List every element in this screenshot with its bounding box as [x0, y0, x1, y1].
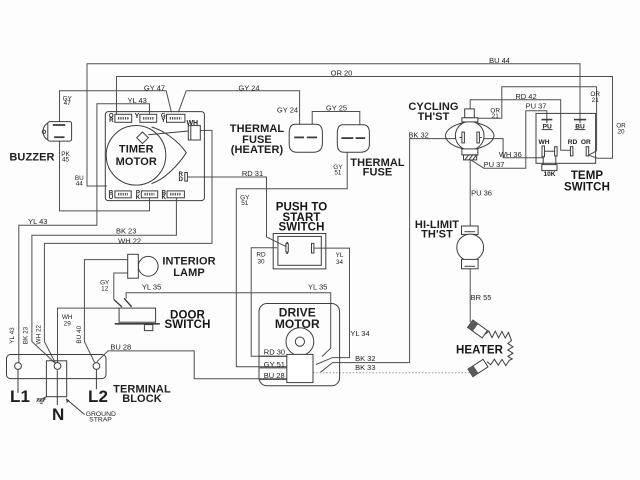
svg-text:BU 28: BU 28 [110, 343, 131, 352]
svg-text:GY 51: GY 51 [264, 360, 285, 369]
svg-text:MOTOR: MOTOR [275, 317, 320, 331]
svg-text:MOTOR: MOTOR [116, 156, 157, 168]
svg-text:BK 32: BK 32 [355, 354, 375, 363]
svg-text:PU: PU [543, 123, 552, 130]
svg-text:RD 31: RD 31 [242, 169, 263, 178]
svg-text:BR 55: BR 55 [471, 293, 492, 302]
svg-text:45: 45 [62, 157, 70, 164]
svg-text:21: 21 [592, 97, 600, 104]
svg-text:TIMER: TIMER [119, 144, 154, 156]
svg-text:RD: RD [568, 139, 578, 146]
svg-text:N: N [52, 405, 64, 424]
svg-text:TH'ST: TH'ST [421, 229, 453, 241]
svg-text:YL 43: YL 43 [128, 96, 147, 105]
svg-text:BU 44: BU 44 [489, 56, 510, 65]
svg-text:GY 47: GY 47 [144, 83, 165, 92]
svg-text:LAMP: LAMP [173, 267, 205, 279]
svg-text:21: 21 [492, 113, 500, 120]
svg-text:L2: L2 [88, 387, 108, 406]
svg-text:TH'ST: TH'ST [418, 111, 450, 123]
svg-text:HEATER: HEATER [456, 345, 504, 357]
svg-text:BU 28: BU 28 [264, 371, 285, 380]
svg-text:K: K [136, 194, 141, 201]
svg-text:BK 33: BK 33 [355, 363, 375, 372]
svg-text:51: 51 [241, 200, 249, 207]
svg-text:OR 20: OR 20 [331, 69, 353, 78]
svg-text:YL 34: YL 34 [350, 329, 369, 338]
svg-text:R: R [109, 117, 114, 124]
svg-text:YL 35: YL 35 [142, 283, 161, 292]
svg-text:FUSE: FUSE [363, 167, 393, 179]
svg-text:BUZZER: BUZZER [9, 152, 54, 164]
svg-text:BK 23: BK 23 [116, 226, 136, 235]
svg-text:BK 23: BK 23 [23, 326, 30, 344]
svg-text:GY 24: GY 24 [238, 83, 259, 92]
svg-text:SWITCH: SWITCH [279, 222, 325, 234]
svg-text:L1: L1 [10, 387, 30, 406]
svg-text:WH 22: WH 22 [118, 237, 141, 246]
svg-text:WH: WH [186, 120, 198, 127]
svg-text:20: 20 [617, 129, 625, 136]
svg-text:GY 24: GY 24 [277, 105, 298, 114]
svg-text:U: U [109, 194, 114, 201]
svg-text:10K: 10K [543, 171, 555, 178]
svg-text:29: 29 [64, 321, 72, 328]
svg-text:OR: OR [581, 139, 591, 146]
svg-text:12: 12 [101, 286, 109, 293]
svg-text:BU: BU [575, 123, 585, 130]
svg-text:51: 51 [334, 170, 342, 177]
svg-text:BLOCK: BLOCK [122, 393, 162, 405]
svg-text:BU 40: BU 40 [76, 325, 83, 343]
svg-text:TEMP: TEMP [571, 170, 604, 182]
svg-text:PU 37: PU 37 [484, 160, 505, 169]
svg-text:SWITCH: SWITCH [564, 182, 610, 194]
svg-text:PU 36: PU 36 [471, 189, 492, 198]
svg-text:GY 25: GY 25 [326, 103, 347, 112]
svg-text:44: 44 [76, 181, 84, 188]
svg-text:K: K [161, 194, 166, 201]
svg-text:30: 30 [257, 258, 265, 265]
svg-text:34: 34 [336, 259, 344, 266]
svg-text:Y: Y [135, 113, 140, 120]
svg-text:SWITCH: SWITCH [165, 319, 211, 331]
svg-text:RD 30: RD 30 [264, 347, 285, 356]
svg-text:INTERIOR: INTERIOR [162, 256, 215, 268]
svg-text:WH: WH [539, 139, 550, 146]
svg-text:BK 32: BK 32 [408, 131, 428, 140]
svg-text:47: 47 [64, 100, 72, 107]
svg-text:PU 37: PU 37 [526, 101, 547, 110]
svg-text:YL 43: YL 43 [28, 217, 47, 226]
svg-text:STRAP: STRAP [89, 417, 112, 424]
svg-text:(HEATER): (HEATER) [231, 144, 284, 156]
svg-text:WH 22: WH 22 [35, 324, 42, 344]
svg-text:D: D [178, 176, 183, 183]
svg-text:YL 35: YL 35 [308, 283, 327, 292]
svg-text:WH 36: WH 36 [499, 150, 522, 159]
svg-text:RD 42: RD 42 [515, 92, 536, 101]
svg-text:YL 43: YL 43 [9, 327, 16, 344]
